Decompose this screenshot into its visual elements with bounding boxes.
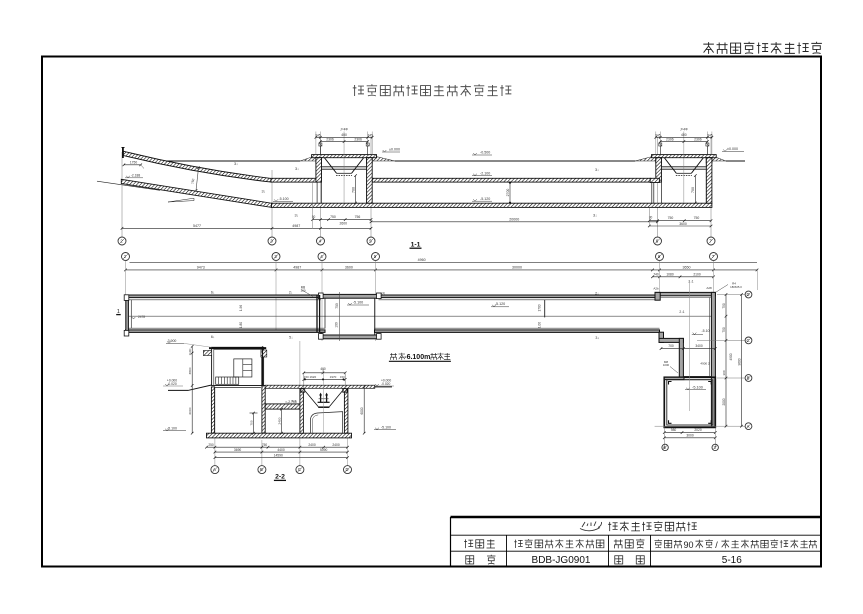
svg-text:C: C: [298, 467, 301, 472]
svg-text:4960: 4960: [418, 258, 426, 262]
svg-text:-5.10: -5.10: [702, 329, 710, 333]
svg-text:A28: A28: [706, 286, 712, 290]
svg-text:750: 750: [262, 443, 268, 447]
svg-text:9473: 9473: [197, 265, 205, 269]
svg-text:2-2: 2-2: [275, 474, 285, 481]
svg-text:±0.000: ±0.000: [727, 147, 738, 151]
svg-text:2400: 2400: [308, 443, 316, 447]
svg-text:5090: 5090: [320, 448, 328, 452]
svg-text:750: 750: [330, 215, 336, 219]
svg-text:A: A: [747, 424, 750, 429]
svg-text:2306: 2306: [666, 138, 674, 142]
svg-text:30000: 30000: [512, 265, 522, 269]
svg-text:6000: 6000: [360, 407, 364, 414]
svg-text:-0.020: -0.020: [381, 382, 391, 386]
svg-text:400: 400: [681, 133, 687, 137]
svg-text:4987: 4987: [293, 265, 301, 269]
svg-text:700: 700: [691, 187, 695, 193]
svg-text:±0.000: ±0.000: [389, 148, 400, 152]
svg-text:2020: 2020: [694, 428, 702, 432]
svg-text:5-16: 5-16: [722, 555, 742, 566]
svg-text:J=4Φ: J=4Φ: [340, 128, 348, 132]
svg-text:2400: 2400: [332, 443, 340, 447]
svg-text:150: 150: [304, 375, 309, 379]
svg-text:250: 250: [208, 443, 214, 447]
svg-text:2306: 2306: [354, 138, 362, 142]
svg-text:-0.500: -0.500: [480, 151, 490, 155]
svg-text:5↓: 5↓: [289, 336, 293, 340]
svg-text:BDB-JG0901: BDB-JG0901: [532, 555, 591, 566]
svg-text:1.00: 1.00: [538, 322, 542, 328]
svg-text:6↓: 6↓: [211, 290, 215, 294]
svg-text:700: 700: [249, 420, 253, 425]
svg-text:14590: 14590: [274, 453, 283, 457]
svg-text:3400: 3400: [695, 344, 703, 348]
svg-text:3650: 3650: [683, 265, 691, 269]
svg-text:-5.100: -5.100: [381, 425, 391, 429]
svg-text:3↓: 3↓: [593, 214, 597, 218]
svg-text:-5.100: -5.100: [692, 385, 703, 389]
svg-text:2↓: 2↓: [595, 291, 599, 295]
svg-text:345: 345: [707, 133, 713, 137]
svg-text:50: 50: [312, 215, 316, 219]
svg-text:3↓: 3↓: [295, 167, 299, 171]
svg-text:-6.100m: -6.100m: [404, 354, 430, 361]
svg-text:3↓: 3↓: [595, 336, 599, 340]
svg-text:B: B: [260, 467, 263, 472]
svg-text:345: 345: [367, 133, 373, 137]
svg-text:6000: 6000: [188, 407, 192, 414]
svg-text:-5.120: -5.120: [495, 302, 505, 306]
svg-text:3690: 3690: [234, 448, 242, 452]
svg-text:9600: 9600: [737, 358, 741, 365]
svg-text:A2b: A2b: [653, 286, 659, 290]
svg-text:2↓: 2↓: [289, 290, 293, 294]
svg-text:20000: 20000: [509, 217, 519, 221]
svg-text:1806±5.0: 1806±5.0: [730, 285, 742, 289]
svg-text:3800: 3800: [188, 367, 192, 374]
svg-text:1.96: 1.96: [239, 305, 243, 311]
svg-text:4987: 4987: [292, 224, 300, 228]
svg-text:3600: 3600: [679, 222, 687, 226]
svg-text:-5.100: -5.100: [167, 426, 177, 430]
svg-text:750: 750: [335, 303, 339, 309]
svg-text:1620: 1620: [309, 375, 316, 379]
svg-text:1100: 1100: [188, 348, 192, 355]
svg-text:750: 750: [694, 216, 700, 220]
svg-text:700: 700: [668, 344, 674, 348]
svg-text:2100: 2100: [693, 273, 701, 277]
svg-text:5477: 5477: [193, 224, 201, 228]
svg-text:B: B: [747, 376, 750, 381]
svg-text:2478: 2478: [138, 315, 145, 319]
svg-text:345: 345: [655, 133, 661, 137]
svg-text:100: 100: [334, 322, 338, 328]
svg-text:J=4Φ: J=4Φ: [680, 128, 688, 132]
svg-text:1970: 1970: [330, 375, 337, 379]
svg-text:750: 750: [722, 303, 726, 309]
svg-text:750: 750: [722, 327, 726, 333]
svg-text:-2.188: -2.188: [131, 174, 141, 178]
svg-text:3600: 3600: [345, 265, 353, 269]
svg-text:(2): (2): [382, 291, 386, 295]
svg-text:1080: 1080: [666, 273, 674, 277]
svg-text:2↓1: 2↓1: [679, 310, 684, 314]
svg-text:2306: 2306: [326, 138, 334, 142]
svg-text:-5.100: -5.100: [353, 301, 363, 305]
svg-text:4900 2: 4900 2: [700, 362, 710, 366]
svg-text:1700: 1700: [538, 304, 542, 311]
svg-text:D: D: [746, 292, 749, 297]
svg-text:1750: 1750: [130, 160, 138, 164]
svg-text:756: 756: [355, 215, 361, 219]
svg-text:750: 750: [668, 216, 674, 220]
svg-text:345: 345: [315, 133, 321, 137]
svg-text:3↓: 3↓: [595, 168, 599, 172]
svg-text:980: 980: [671, 428, 677, 432]
svg-text:6↓: 6↓: [211, 335, 215, 339]
svg-text:C: C: [746, 338, 749, 343]
svg-text:4400: 4400: [277, 448, 285, 452]
svg-text:2400: 2400: [277, 417, 281, 424]
svg-text:-5.100: -5.100: [278, 197, 288, 201]
svg-text:400: 400: [341, 133, 347, 137]
svg-text:2306: 2306: [694, 138, 702, 142]
svg-text:700: 700: [351, 187, 355, 193]
svg-text:-2.100: -2.100: [480, 171, 490, 175]
svg-text:100: 100: [300, 289, 305, 293]
svg-text:2700: 2700: [506, 189, 510, 197]
svg-text:300: 300: [722, 370, 726, 375]
svg-text:2000: 2000: [722, 398, 726, 405]
svg-text:2600: 2600: [340, 222, 348, 226]
svg-text:A: A: [213, 467, 216, 472]
svg-text:3↓: 3↓: [294, 214, 298, 218]
svg-text:90: 90: [683, 540, 693, 550]
svg-text:1-1: 1-1: [411, 241, 421, 248]
svg-text:150: 150: [340, 375, 345, 379]
svg-text:3000: 3000: [686, 434, 694, 438]
svg-text:3.900: 3.900: [168, 339, 177, 343]
svg-text:4900: 4900: [729, 353, 733, 360]
svg-text:2↓1: 2↓1: [291, 399, 296, 403]
svg-text:3↓: 3↓: [234, 162, 238, 166]
svg-text:1.80: 1.80: [239, 322, 243, 328]
svg-text:740: 740: [653, 272, 659, 276]
svg-text:1000: 1000: [663, 363, 670, 367]
svg-text:D: D: [345, 467, 348, 472]
svg-text:-5.120: -5.120: [480, 197, 490, 201]
svg-text:2↓1: 2↓1: [688, 279, 693, 283]
svg-text:3↓: 3↓: [261, 190, 265, 194]
svg-text:750: 750: [191, 178, 196, 184]
